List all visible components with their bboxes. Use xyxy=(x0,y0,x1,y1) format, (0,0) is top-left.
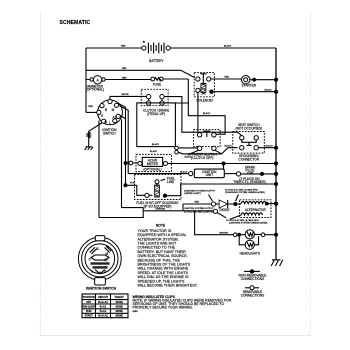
svg-text:PUR: PUR xyxy=(130,183,135,185)
grounding connector label xyxy=(239,154,260,161)
svg-text:A1: A1 xyxy=(104,258,108,262)
lighting labels xyxy=(226,219,268,225)
svg-text:RED: RED xyxy=(122,77,127,79)
svg-text:LIMITED & BATT.: LIMITED & BATT. xyxy=(184,192,201,195)
svg-text:RUN LIGHT: RUN LIGHT xyxy=(82,306,96,309)
svg-text:14 VOLTS AC MIN. @ 3600 RPM: 14 VOLTS AC MIN. @ 3600 RPM xyxy=(226,219,259,222)
svg-text:B+A1: B+A1 xyxy=(100,306,107,309)
ignition switch table xyxy=(82,294,128,318)
charging connector xyxy=(211,202,215,206)
svg-text:L: L xyxy=(92,270,94,274)
node rail-solenoid xyxy=(274,90,278,94)
wire clutch-brake right lower to seat bus xyxy=(164,103,225,134)
wire headlight feed (brown) xyxy=(195,211,234,235)
headlight connector left xyxy=(233,233,237,237)
svg-text:LINE: LINE xyxy=(167,180,174,184)
fuel shut-off solenoid xyxy=(135,175,182,209)
switch key slots xyxy=(90,246,111,254)
svg-text:NONE: NONE xyxy=(116,315,124,318)
svg-text:LIGHTING SYSTEM OUTPUT: LIGHTING SYSTEM OUTPUT xyxy=(184,208,214,210)
page dotted border xyxy=(41,12,311,336)
ground symbol rail xyxy=(271,260,283,266)
clutch/brake switch body xyxy=(137,103,176,153)
svg-text:(CHARGING SYSTEM UNREGULATED): (CHARGING SYSTEM UNREGULATED) xyxy=(225,191,265,194)
svg-text:STARTER: STARTER xyxy=(242,83,257,87)
svg-text:(OPTIONAL): (OPTIONAL) xyxy=(86,88,104,92)
svg-text:B: B xyxy=(97,247,99,251)
svg-text:RED: RED xyxy=(195,202,200,204)
accessory vertical node top xyxy=(124,161,128,165)
svg-text:M: M xyxy=(106,252,109,256)
svg-text:BLACK: BLACK xyxy=(180,170,188,173)
lighting connector xyxy=(213,209,217,213)
svg-text:CONNECTIONS: CONNECTIONS xyxy=(241,277,265,281)
diode D1 xyxy=(216,200,234,212)
svg-text:B+G+A1: B+G+A1 xyxy=(98,301,108,304)
svg-text:CIRCUIT: CIRCUIT xyxy=(98,296,109,299)
svg-text:OFF: OFF xyxy=(86,301,91,304)
resistor coil on ground wire xyxy=(87,132,90,138)
node rail-seat xyxy=(274,146,278,150)
svg-text:METER: METER xyxy=(147,162,159,166)
node rail-engine bus xyxy=(274,182,278,186)
ignition unit xyxy=(189,169,225,178)
node rail-spark xyxy=(274,172,278,176)
svg-text:BLACK: BLACK xyxy=(150,150,158,153)
wire solenoid ground to rail xyxy=(214,88,276,91)
wire battery top rail xyxy=(86,45,276,48)
svg-text:ORANGE: ORANGE xyxy=(156,207,166,210)
engine output labels (charging) xyxy=(184,189,216,201)
ignition switch rear view xyxy=(78,236,121,285)
wire solenoid to starter xyxy=(211,77,242,79)
ground symbol left xyxy=(85,147,93,150)
wire accessory to fuel solenoid xyxy=(126,183,158,196)
node rail-hourline xyxy=(274,161,278,165)
svg-text:L: L xyxy=(109,121,111,125)
wire battery rail to switch B xyxy=(86,106,97,112)
clutch/brake pedal switch connector (dashed) xyxy=(141,89,168,105)
svg-text:RED: RED xyxy=(88,106,93,108)
wire charging output (red diode wire) xyxy=(183,202,211,211)
node alternator to rail xyxy=(265,202,269,206)
svg-text:BLACK: BLACK xyxy=(203,112,211,115)
wire hour meter line xyxy=(128,162,277,165)
svg-text:CAP: CAP xyxy=(247,172,254,176)
note block xyxy=(138,224,198,288)
svg-text:(PEDAL UP): (PEDAL UP) xyxy=(147,112,165,116)
svg-text:CONNECTOR: CONNECTOR xyxy=(239,158,260,162)
seat switch (dashed) xyxy=(233,123,264,153)
connector on hour meter wire xyxy=(129,161,133,165)
headlamp 2 xyxy=(245,240,254,249)
wire lighting output (orange) xyxy=(143,207,214,213)
wire lighting diagonal xyxy=(217,213,226,218)
svg-text:(NOT OCCUPIED): (NOT OCCUPIED) xyxy=(236,126,263,130)
svg-text:BLACK: BLACK xyxy=(152,143,160,146)
headlamp 1 xyxy=(245,230,254,239)
svg-text:NOTE: NOTE xyxy=(156,224,166,228)
svg-text:WHITE: WHITE xyxy=(122,94,130,96)
alternator xyxy=(230,200,271,220)
svg-text:(LIGHTING SYSTEM UNREGULATED): (LIGHTING SYSTEM UNREGULATED) xyxy=(229,221,268,224)
wire switch G to ground xyxy=(89,123,103,147)
svg-text:NONE: NONE xyxy=(116,301,124,304)
svg-text:SWITCH: SWITCH xyxy=(103,131,116,135)
wire solenoid to attachment clutch xyxy=(197,92,199,132)
ammeter A xyxy=(86,76,105,92)
hour meter xyxy=(136,154,171,171)
solenoid xyxy=(194,73,214,103)
wire bus to solenoid xyxy=(86,68,195,78)
removable connections legend xyxy=(241,286,265,298)
svg-text:BLACK: BLACK xyxy=(224,45,232,48)
wire fuse to clutch/brake feed xyxy=(163,79,188,103)
wire headlight to rail xyxy=(265,234,276,236)
svg-text:B: B xyxy=(105,108,107,112)
svg-text:RED: RED xyxy=(121,46,126,48)
wire fuel solenoid to engine bus xyxy=(167,184,276,196)
wire right rail (main ground bus) xyxy=(275,48,277,260)
wire ignition switch M to ignition unit xyxy=(128,170,188,173)
svg-text:"MAKE": "MAKE" xyxy=(114,296,125,299)
wire ammeter to fuse xyxy=(86,77,151,79)
svg-text:18 VOLTS AC MIN. @ 3600 RPM: 18 VOLTS AC MIN. @ 3600 RPM xyxy=(225,188,258,191)
svg-text:FUSE: FUSE xyxy=(153,82,162,86)
svg-text:SOLENOID: SOLENOID xyxy=(196,98,213,102)
wire left rail xyxy=(85,48,87,112)
wire starter to rail xyxy=(250,79,276,81)
svg-text:BROWN: BROWN xyxy=(220,232,229,234)
svg-text:M: M xyxy=(112,108,115,112)
svg-text:POSITION: POSITION xyxy=(83,296,95,299)
wire alternator to rail xyxy=(267,203,276,205)
wire switch to clutch/brake (white) xyxy=(110,94,146,99)
wire switch A1 to accessory vertical xyxy=(118,103,128,185)
svg-text:ALTERNATOR: ALTERNATOR xyxy=(245,208,267,212)
svg-text:CHARGING SYSTEM OUTPUT: CHARGING SYSTEM OUTPUT xyxy=(184,189,216,192)
svg-text:WILL BECOME THEIR BRIGHTEST.: WILL BECOME THEIR BRIGHTEST. xyxy=(138,284,198,288)
node rail-starter xyxy=(274,78,278,82)
svg-text:START: START xyxy=(85,315,94,318)
wire column bottom routing xyxy=(99,208,143,218)
svg-text:(CLUTCH OFF): (CLUTCH OFF) xyxy=(191,156,213,160)
engine output labels (18V) xyxy=(225,188,265,201)
svg-text:SCHEMATIC: SCHEMATIC xyxy=(60,20,91,26)
headlight wires loop xyxy=(239,234,261,244)
wire seat switch to rail xyxy=(258,144,276,147)
node rail-alternator xyxy=(274,202,278,206)
node diode-alternator xyxy=(233,202,237,206)
svg-text:BATTERY: BATTERY xyxy=(149,59,164,63)
svg-text:UNIT: UNIT xyxy=(206,173,213,177)
svg-text:PROPERLY SECURE YOUR WIRING.: PROPERLY SECURE YOUR WIRING. xyxy=(133,306,193,310)
svg-text:S: S xyxy=(89,258,91,262)
svg-text:BLACK: BLACK xyxy=(225,144,233,147)
node rail-headlight xyxy=(274,233,278,237)
svg-text:(OPTIONAL): (OPTIONAL) xyxy=(143,167,161,171)
fuse F1 xyxy=(151,77,163,86)
svg-text:14 VOLTS AC MIN. (LIGHTS): 14 VOLTS AC MIN. (LIGHTS) xyxy=(184,210,213,213)
svg-text:RUN: RUN xyxy=(86,310,92,313)
svg-text:NONE: NONE xyxy=(116,310,124,313)
svg-text:IGNITION SWITCH: IGNITION SWITCH xyxy=(86,287,117,291)
spark plug cap xyxy=(224,166,276,185)
svg-text:BLACK: BLACK xyxy=(266,144,274,147)
svg-text:RED: RED xyxy=(122,68,127,70)
svg-text:RED: RED xyxy=(225,77,230,79)
non-removable connections legend xyxy=(239,269,267,281)
ignition switch column wires xyxy=(99,120,143,218)
svg-text:HEADLIGHTS: HEADLIGHTS xyxy=(240,252,260,256)
wire stub to ignition unit xyxy=(223,164,225,170)
svg-text:NONE: NONE xyxy=(116,306,124,309)
wiring insulated clips note xyxy=(133,295,232,313)
svg-text:S: S xyxy=(101,114,103,118)
svg-text:929D: 929D xyxy=(133,311,139,313)
node headlight left xyxy=(237,233,241,237)
svg-text:B+S+A1: B+S+A1 xyxy=(98,315,108,318)
svg-text:DIODE: DIODE xyxy=(219,208,229,212)
svg-text:BLACK: BLACK xyxy=(185,155,193,158)
svg-text:A1: A1 xyxy=(112,116,116,120)
wire clutch top right circle to seat feed xyxy=(164,97,242,136)
battery B1 xyxy=(142,41,171,63)
ignition switch S1 (schematic symbol) xyxy=(97,99,123,124)
starter M1 xyxy=(242,76,257,88)
attachment clutch switch xyxy=(188,130,220,160)
svg-text:CONNECTIONS: CONNECTIONS xyxy=(241,293,265,297)
headlight connector right xyxy=(261,233,265,237)
node ignition unit top xyxy=(222,162,226,166)
svg-text:B+A1: B+A1 xyxy=(100,310,107,313)
svg-text:BLACK: BLACK xyxy=(265,88,273,91)
attachment clutch output bus xyxy=(175,144,238,158)
node accessory-fuel xyxy=(124,183,128,187)
